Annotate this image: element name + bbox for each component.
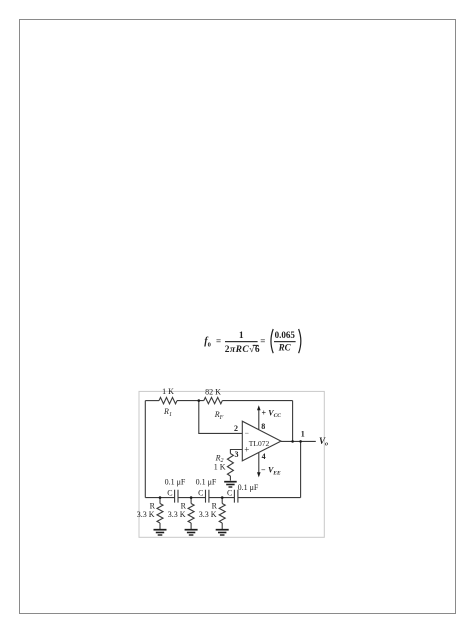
svg-text:8: 8 [261,422,265,431]
wire: C1 to bottom-left corner [145,497,174,499]
resistor Rc2 (3.3 K) [188,504,194,524]
node 1 junction dot [159,496,162,499]
ground 1 [154,530,167,535]
resistor Rc1 (3.3 K) [157,504,163,524]
node A junction dot [198,399,201,402]
svg-text:Vo: Vo [319,436,328,448]
svg-text:TL072: TL072 [249,439,270,448]
svg-text:−: − [245,429,249,438]
wire: node 3 stub down [221,498,223,504]
capacitor C2 (0.1 uF) [206,490,209,503]
wire: top-left to R1 [145,400,159,402]
svg-text:4: 4 [262,452,266,461]
svg-text:1 K: 1 K [162,387,174,396]
wire: node A down and right to pin 2 [199,401,243,434]
svg-text:RF: RF [214,410,224,421]
resistor Rc3 (3.3 K) [219,504,225,524]
svg-text:R1: R1 [163,407,172,418]
wire: node 2 stub down [190,498,192,504]
ground 2 [185,530,198,535]
svg-text:0.1 μF: 0.1 μF [165,478,186,487]
wire: C3 to node 3 [209,497,235,499]
pin 8 VCC lead [258,408,260,430]
svg-text:−VEE: −VEE [261,466,281,477]
formula fraction bar 2 [274,341,296,342]
svg-text:3.3 K: 3.3 K [168,510,186,519]
circuit bounding box (light frame) [139,391,324,537]
svg-text:=: = [216,336,221,346]
wire: pin 3 stub [230,450,242,454]
formula fraction bar 1 [225,341,258,342]
svg-text:3: 3 [235,450,239,459]
node 2 junction dot [190,496,193,499]
svg-text:0.1 μF: 0.1 μF [238,483,259,492]
svg-text:1: 1 [301,430,305,439]
svg-text:2: 2 [234,424,238,433]
resistor RF (82 K) [204,397,223,403]
svg-text:+VCC: +VCC [262,408,282,419]
feedback junction dot [291,440,294,443]
wire: C2 to node 2 [178,497,206,499]
svg-text:C: C [227,489,232,498]
wire: left rail (bottom-left corner up to top-left corner) [144,401,146,498]
formula f0 = 1/(2piRC sqrt6) = (0.065/RC) [204,329,301,355]
wire: R1 to node A [177,400,204,402]
svg-text:3.3 K: 3.3 K [137,510,155,519]
svg-text:f0: f0 [204,336,211,348]
capacitor C1 (0.1 uF) [175,490,178,503]
svg-text:=: = [260,336,265,346]
svg-text:C: C [167,489,172,498]
svg-text:1: 1 [239,331,244,341]
svg-text:1 K: 1 K [214,462,226,471]
svg-text:3.3 K: 3.3 K [199,510,217,519]
wire: RF to feedback corner [222,400,292,402]
resistor R1 (1 K) [159,397,177,403]
pin 4 VEE lead [258,453,260,474]
wire: R2 to ground [229,476,231,481]
resistor R2 (1 K) [227,454,233,477]
VEE arrowhead [257,472,261,477]
svg-text:0.065: 0.065 [275,330,296,340]
formula sqrt vinculum [253,345,259,346]
svg-text:RC: RC [278,342,292,352]
wire: Rc1 to ground [159,523,161,529]
wire: right rail down from output node [300,441,302,497]
svg-text:0.1 μF: 0.1 μF [196,478,217,487]
wire: Rc3 to ground [221,523,223,529]
output junction dot [299,440,302,443]
ground 3 [216,530,229,535]
formula left paren [271,329,273,353]
ground for R2 [224,482,237,487]
VCC arrowhead [257,405,261,410]
wire: Rc2 to ground [190,523,192,529]
svg-text:C: C [198,489,203,498]
wire: feedback drop to output node [292,401,294,442]
formula right paren [299,329,301,353]
capacitor C3 (0.1 uF) [234,490,238,503]
wire: node 1 stub down [159,498,161,504]
op-amp U1 TL072 [242,421,281,461]
svg-text:82 K: 82 K [205,388,221,397]
wire: output from op-amp apex [281,440,316,442]
node 3 junction dot [221,496,224,499]
wire: bottom rail right segment (to C3) [238,497,301,499]
